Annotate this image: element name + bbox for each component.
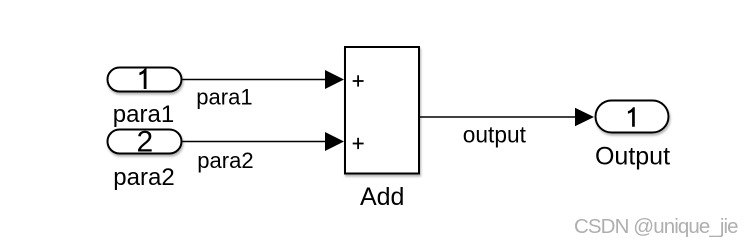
svg-text:para1: para1 <box>113 101 174 128</box>
svg-text:2: 2 <box>136 125 153 158</box>
svg-text:output: output <box>463 121 527 147</box>
arrowhead into Add input 2 <box>325 132 344 151</box>
sum block Add (rectangle) <box>345 47 419 174</box>
svg-text:para2: para2 <box>197 148 253 173</box>
inport block In2 (pill) <box>108 130 182 154</box>
plus sign for input port 2 <box>353 138 364 149</box>
arrowhead into Output <box>575 108 594 127</box>
svg-text:Output: Output <box>595 142 670 170</box>
plus sign for input port 1 <box>353 75 364 86</box>
wire In1 to Add <box>183 79 328 81</box>
wire In2 to Add <box>183 141 328 143</box>
wire Add to Output <box>420 116 577 118</box>
svg-text:para1: para1 <box>196 85 252 110</box>
inport block In1 (pill) <box>108 68 182 92</box>
svg-text:para2: para2 <box>113 164 174 191</box>
outport block Out1 (pill) <box>596 101 669 133</box>
svg-text:CSDN @unique_jie: CSDN @unique_jie <box>574 215 738 238</box>
svg-text:Add: Add <box>360 183 404 211</box>
pin number 1 of Out1 <box>628 107 635 127</box>
arrowhead into Add input 1 <box>325 70 344 89</box>
pin number 1 of In1 <box>139 69 146 90</box>
